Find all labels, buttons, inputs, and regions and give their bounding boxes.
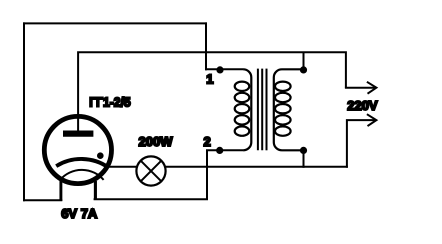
wire: top horizontal (cathode return to primary pin 1) [23,22,207,24]
transformer T1: secondary loop 2 [275,93,291,102]
node: primary terminal 1 junction dot [216,66,223,73]
wire: secondary bottom vertical stub [303,150,305,167]
wire: upper output arrow shaft [345,87,376,89]
transformer T1: core line 3 [266,69,268,151]
lamp EL1: bulb circle [136,156,165,185]
svg-text:2: 2 [204,134,211,149]
wire: primary pin 2 stub, down and left to tube right pin [94,150,244,199]
tube pin right [94,181,97,200]
node: secondary bottom terminal dot [300,147,307,154]
svg-text:200W: 200W [139,134,174,149]
svg-text:6V 7A: 6V 7A [61,206,98,221]
transformer T1: primary loop 3 [235,104,250,113]
tube filament dome arc [60,170,103,180]
transformer T1: secondary loop 1 [275,82,291,91]
tube grid arc [56,159,108,168]
vacuum tube V1: envelope circle [44,116,111,183]
transformer T1: primary loop 1 [235,82,250,91]
wire: anode lead up and across to upper output corner [78,52,346,131]
wire: left vertical [23,22,25,201]
svg-text:ГГ1-2/5: ГГ1-2/5 [89,95,131,110]
transformer T1: secondary loop 4 [275,115,291,124]
transformer T1: primary loop 5 [235,126,250,135]
tube internal electrode dot [97,152,104,159]
transformer T1: core line 1 [257,69,259,151]
transformer T1: primary loop 2 [235,93,250,102]
svg-text:1: 1 [206,72,213,87]
transformer T1: secondary loop 3 [275,104,291,113]
node: secondary top terminal dot [300,66,307,73]
transformer T1: primary winding outline (hooks + backbone) [243,69,251,150]
transformer T1: core line 2 [261,69,263,151]
transformer T1: primary loop 4 [235,115,250,124]
transformer T1: secondary loop 5 [275,126,291,135]
wire: pin 1 horizontal stub [205,68,243,70]
upper output arrowhead [367,82,377,94]
wire: secondary top vertical stub [303,52,305,68]
node: primary terminal 2 junction dot [216,147,223,154]
svg-text:220V: 220V [347,98,378,113]
lower output arrowhead [367,114,377,126]
wire: lamp to lower output corner [165,166,348,168]
transformer T1: secondary winding outline (hooks + backbone) [274,69,304,150]
tube anode plate bar [63,130,93,136]
tube pin left [59,181,62,201]
wire: bottom-left horizontal to tube left pin [23,199,62,201]
wire: lower output vertical + arrow shaft [347,120,376,168]
lamp X diagonal 2 [141,161,162,182]
wire: vertical drop to transformer pin 1 [205,22,207,70]
lamp X diagonal 1 [141,161,162,182]
wire: cathode side to lamp [108,166,137,168]
